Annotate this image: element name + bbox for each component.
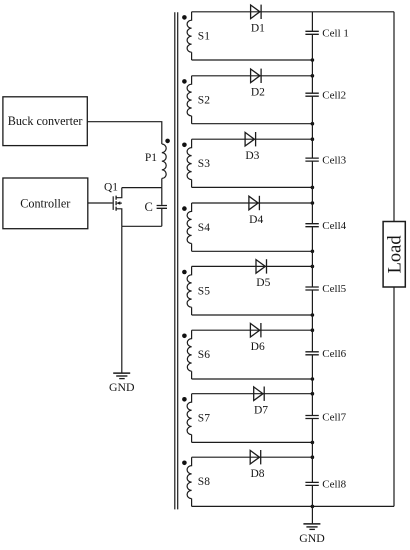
junction node S7 bottom / cell string xyxy=(311,441,315,445)
wire secondary S5 top xyxy=(192,265,313,267)
secondary winding S7 xyxy=(187,394,192,443)
controller block xyxy=(3,178,88,229)
svg-text:S5: S5 xyxy=(198,285,210,297)
svg-text:D7: D7 xyxy=(254,405,268,417)
cell 6 capacitor plates xyxy=(305,352,318,355)
load box xyxy=(383,222,405,288)
junction node S2 top / cell string xyxy=(311,74,315,78)
ground (left) xyxy=(113,373,130,379)
svg-text:D3: D3 xyxy=(245,150,259,162)
cell 7 capacitor plates xyxy=(305,416,318,419)
wire secondary S2 top xyxy=(192,75,313,77)
S2 phase dot xyxy=(182,79,187,84)
diode D2 xyxy=(251,69,262,83)
diode D8 xyxy=(250,450,261,464)
svg-text:Cell 1: Cell 1 xyxy=(322,28,349,40)
wire secondary S2 bottom xyxy=(192,123,313,125)
svg-text:GND: GND xyxy=(109,380,135,394)
svg-text:D8: D8 xyxy=(250,468,264,480)
secondary winding S2 xyxy=(187,76,192,124)
P1 phase dot xyxy=(165,139,170,144)
S7 phase dot xyxy=(182,397,187,402)
junction node S6 top / cell string xyxy=(311,328,315,332)
S1 phase dot xyxy=(182,15,187,20)
junction node S7 top / cell string xyxy=(311,392,315,396)
svg-text:Buck converter: Buck converter xyxy=(8,114,83,128)
diode D5 xyxy=(256,259,267,273)
svg-text:D1: D1 xyxy=(251,23,265,35)
wire secondary S1 top xyxy=(192,11,394,13)
wire secondary S1 bottom xyxy=(192,59,313,61)
wire secondary S8 bottom xyxy=(192,505,394,507)
cell 2 capacitor plates xyxy=(305,93,318,96)
junction node S5 bottom / cell string xyxy=(311,313,315,317)
wire positive rail to load xyxy=(393,12,395,222)
cell 5 capacitor plates xyxy=(305,287,318,290)
junction node S4 bottom / cell string xyxy=(311,250,315,254)
svg-text:GND: GND xyxy=(299,531,325,545)
junction node S5 top / cell string xyxy=(311,265,315,269)
diode D4 xyxy=(249,196,260,210)
junction node S3 top / cell string xyxy=(311,137,315,141)
wire drain node top rail xyxy=(122,187,162,189)
cell 1 capacitor plates xyxy=(305,31,318,34)
junction node S2 bottom / cell string xyxy=(311,122,315,126)
wire secondary S3 top xyxy=(192,138,313,140)
S5 phase dot xyxy=(182,270,187,275)
diode D3 xyxy=(245,132,256,146)
svg-text:Cell3: Cell3 xyxy=(322,154,346,166)
S6 phase dot xyxy=(182,334,187,339)
secondary winding S5 xyxy=(187,266,192,315)
junction node S4 top / cell string xyxy=(311,201,315,205)
buck converter block xyxy=(3,97,87,146)
cell 4 capacitor plates xyxy=(305,224,318,227)
capacitor C xyxy=(157,188,167,227)
diode D7 xyxy=(254,387,265,401)
primary winding P1 xyxy=(162,144,166,178)
svg-text:D6: D6 xyxy=(251,341,265,353)
svg-text:Cell2: Cell2 xyxy=(322,89,346,101)
svg-text:C: C xyxy=(144,200,152,214)
wire secondary S7 bottom xyxy=(192,441,313,443)
S3 phase dot xyxy=(182,143,187,148)
wire secondary S8 top xyxy=(192,456,313,458)
cell series string wire xyxy=(311,12,313,507)
wire secondary S5 bottom xyxy=(192,314,313,316)
diode D6 xyxy=(250,323,261,337)
S4 phase dot xyxy=(182,206,187,211)
wire secondary S4 bottom xyxy=(192,250,313,252)
cell 8 capacitor plates xyxy=(305,482,318,485)
diode D1 xyxy=(251,5,262,19)
svg-text:Cell8: Cell8 xyxy=(322,479,346,491)
svg-text:S8: S8 xyxy=(198,476,210,488)
svg-text:Controller: Controller xyxy=(20,196,70,210)
svg-text:S6: S6 xyxy=(198,349,210,361)
svg-text:Cell7: Cell7 xyxy=(322,412,346,424)
svg-text:Cell6: Cell6 xyxy=(322,348,346,360)
wire P1 bottom to drain node xyxy=(161,178,163,187)
wire load bottom return xyxy=(393,287,395,506)
secondary winding S1 xyxy=(187,12,192,60)
svg-text:S7: S7 xyxy=(198,413,210,425)
transistor Q1 (NMOS) xyxy=(113,188,122,227)
junction node S1 bottom / cell string xyxy=(311,58,315,62)
wire cell string to ground xyxy=(311,506,313,523)
wire controller gate drive xyxy=(88,202,113,204)
svg-text:Cell4: Cell4 xyxy=(322,220,346,232)
svg-text:D5: D5 xyxy=(256,277,270,289)
wire source to ground xyxy=(121,226,123,372)
svg-text:D2: D2 xyxy=(251,87,265,99)
ground (bottom) xyxy=(303,524,320,530)
transformer core xyxy=(175,12,178,509)
svg-text:S2: S2 xyxy=(198,95,210,107)
svg-text:S1: S1 xyxy=(198,31,210,43)
svg-text:Cell5: Cell5 xyxy=(322,283,346,295)
svg-text:S3: S3 xyxy=(198,158,210,170)
S8 phase dot xyxy=(182,461,187,466)
wire secondary S4 top xyxy=(192,202,313,204)
wire secondary S6 bottom xyxy=(192,378,313,380)
svg-text:D4: D4 xyxy=(249,214,263,226)
wire secondary S7 top xyxy=(192,393,313,395)
svg-text:Load: Load xyxy=(386,235,406,274)
wire source node bottom rail xyxy=(122,225,162,227)
wire secondary S3 bottom xyxy=(192,186,313,188)
secondary winding S6 xyxy=(187,330,191,379)
secondary winding S8 xyxy=(187,457,192,506)
wire buck converter output to primary P1 xyxy=(87,122,162,144)
svg-text:Q1: Q1 xyxy=(104,181,118,193)
junction node S3 bottom / cell string xyxy=(311,186,315,190)
svg-text:P1: P1 xyxy=(145,152,157,164)
cell 3 capacitor plates xyxy=(305,158,318,161)
secondary winding S3 xyxy=(187,139,192,187)
junction node S8 top / cell string xyxy=(311,455,315,459)
secondary winding S4 xyxy=(187,203,192,251)
junction node S8 bottom / cell string xyxy=(311,505,315,509)
svg-text:S4: S4 xyxy=(198,222,210,234)
wire secondary S6 top xyxy=(192,329,313,331)
junction node S6 bottom / cell string xyxy=(311,377,315,381)
